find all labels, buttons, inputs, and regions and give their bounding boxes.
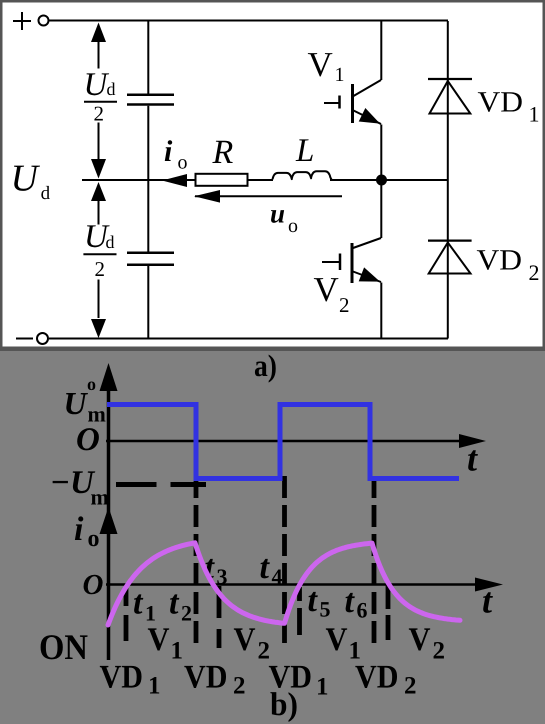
svg-text:2: 2 [181, 601, 192, 626]
svg-text:2: 2 [404, 673, 417, 700]
svg-text:VD: VD [478, 87, 524, 119]
svg-text:2: 2 [529, 260, 540, 285]
svg-text:t: t [260, 549, 271, 586]
svg-text:2: 2 [95, 257, 106, 281]
svg-text:6: 6 [357, 598, 368, 623]
svg-text:i: i [74, 511, 84, 548]
svg-text:V: V [409, 622, 431, 658]
svg-text:m: m [91, 485, 109, 510]
svg-text:u: u [270, 199, 285, 229]
svg-text:1: 1 [148, 673, 161, 700]
svg-text:1: 1 [316, 674, 329, 701]
svg-text:d: d [107, 79, 116, 99]
svg-text:V: V [314, 270, 339, 309]
svg-text:t: t [169, 585, 180, 622]
svg-text:1: 1 [335, 64, 345, 86]
svg-text:o: o [288, 215, 298, 237]
svg-text:5: 5 [320, 597, 331, 622]
svg-text:V: V [234, 622, 256, 658]
svg-text:1: 1 [171, 638, 184, 665]
svg-text:i: i [164, 135, 173, 168]
svg-text:ON: ON [39, 627, 88, 667]
svg-text:o: o [88, 526, 100, 552]
svg-text:t: t [133, 585, 144, 622]
svg-text:VD: VD [100, 660, 144, 696]
svg-text:2: 2 [233, 673, 246, 700]
svg-text:VD: VD [184, 660, 228, 696]
svg-text:VD: VD [477, 245, 523, 277]
svg-text:U: U [64, 385, 89, 421]
svg-text:−U: −U [50, 465, 96, 501]
svg-text:VD: VD [269, 660, 313, 696]
svg-text:t: t [308, 582, 319, 619]
svg-text:L: L [295, 133, 314, 169]
svg-text:d: d [41, 183, 51, 204]
svg-text:o: o [87, 374, 96, 394]
svg-text:2: 2 [433, 638, 446, 665]
svg-text:V: V [148, 622, 170, 658]
svg-text:O: O [76, 422, 100, 458]
svg-text:2: 2 [339, 293, 350, 317]
svg-text:1: 1 [529, 102, 540, 127]
svg-text:V: V [308, 45, 333, 84]
svg-text:VD: VD [355, 660, 399, 696]
svg-text:R: R [212, 134, 234, 171]
svg-text:V: V [326, 622, 348, 658]
svg-text:o: o [178, 152, 188, 174]
svg-text:d: d [106, 232, 115, 252]
svg-text:a): a) [254, 348, 277, 383]
svg-text:t: t [345, 583, 356, 620]
svg-text:2: 2 [94, 102, 105, 126]
svg-text:O: O [83, 569, 104, 601]
svg-text:U: U [11, 158, 41, 200]
